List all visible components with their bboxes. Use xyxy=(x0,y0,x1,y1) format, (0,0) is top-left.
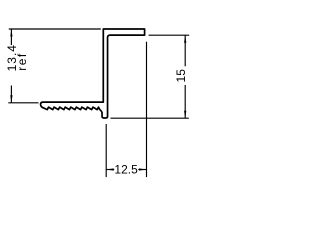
dimension 12.5 : left arrowhead xyxy=(106,168,113,170)
dimension 15 : upper arrowhead xyxy=(184,35,186,42)
profile outline (tile trim cross-section) xyxy=(41,29,145,118)
dimension 15 : dimension line upper segment xyxy=(184,35,186,66)
dimension 15 : dimension line lower segment xyxy=(184,85,186,118)
dimension 15 : top extension line xyxy=(149,34,190,36)
svg-text:12.5: 12.5 xyxy=(114,163,138,177)
dimension 15 : bottom extension line xyxy=(111,117,189,119)
dimension 13.4 ref : lower arrowhead xyxy=(10,95,12,102)
dimension 13.4 ref : upper arrowhead xyxy=(10,29,12,36)
dimension 12.5 : dimension line right segment xyxy=(138,169,146,171)
dimension 12.5 : dimension line left segment xyxy=(106,169,114,171)
dimension 12.5 : right extension line xyxy=(146,42,148,177)
dimension 15 : lower arrowhead xyxy=(184,111,186,118)
dimension 12.5 : left extension line xyxy=(105,124,107,177)
dimension 13.4 ref : dimension line upper segment xyxy=(10,29,12,45)
dimension 13.4 ref : dimension line lower segment xyxy=(10,86,12,103)
dimension 12.5 : right arrowhead xyxy=(139,168,146,170)
svg-text:ref: ref xyxy=(15,52,29,71)
svg-text:15: 15 xyxy=(174,69,188,83)
dimension 13.4 ref : bottom extension line xyxy=(8,102,38,104)
dimension 13.4 ref : top extension line xyxy=(9,28,101,30)
